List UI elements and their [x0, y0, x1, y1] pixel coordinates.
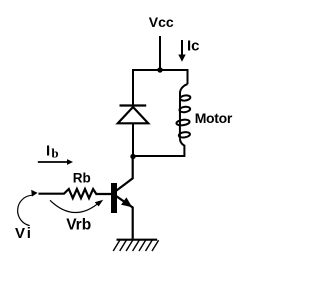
- current arrow Ic: [181, 40, 183, 56]
- motor coil loop 1: [180, 95, 191, 101]
- ground hatch 1: [113, 240, 120, 251]
- wire rail to diode: [132, 69, 134, 105]
- diode D1 triangle: [118, 107, 148, 123]
- transistor Q1 emitter: [117, 196, 133, 239]
- diode D1 cathode bar: [120, 104, 147, 106]
- current arrow Ib: [38, 161, 69, 163]
- svg-text:Ic: Ic: [187, 38, 200, 55]
- wire input and resistor Rb zigzag: [39, 189, 112, 198]
- wire top rail to motor stub: [132, 70, 188, 84]
- ground bar: [117, 239, 158, 241]
- node junction collector rail: [130, 154, 135, 159]
- motor coil loop 3: [176, 119, 190, 126]
- svg-text:Vcc: Vcc: [149, 14, 174, 30]
- svg-text:Vrb: Vrb: [66, 216, 91, 233]
- arrowhead Vi: [31, 190, 37, 197]
- wire diode to bottom rail: [132, 124, 134, 157]
- ground hatch 3: [126, 240, 133, 251]
- ground hatch 6: [146, 240, 153, 251]
- voltage arc Vi: [18, 195, 32, 225]
- svg-text:Rb: Rb: [73, 171, 91, 186]
- ground hatch 4: [133, 240, 140, 251]
- wire Vcc stub: [159, 36, 161, 70]
- ground hatch 2: [120, 240, 127, 251]
- ground hatch 5: [139, 240, 146, 251]
- motor coil loop 4: [178, 131, 190, 138]
- arrowhead Vrb: [95, 200, 104, 207]
- svg-text:Motor: Motor: [195, 110, 233, 126]
- motor coil loop 2: [179, 106, 190, 113]
- transistor Q1 collector: [117, 157, 133, 191]
- transistor Q1 emitter arrowhead: [121, 197, 132, 207]
- wire bottom rail to motor bottom: [133, 138, 184, 156]
- motor coil spine: [180, 84, 188, 138]
- transistor Q1 base bar: [111, 183, 117, 213]
- ground hatch 7: [152, 240, 159, 251]
- node junction Vcc/rail: [157, 67, 162, 72]
- svg-text:Vi: Vi: [15, 225, 31, 242]
- voltage arc Vrb: [50, 200, 100, 212]
- svg-text:Ib: Ib: [46, 143, 59, 161]
